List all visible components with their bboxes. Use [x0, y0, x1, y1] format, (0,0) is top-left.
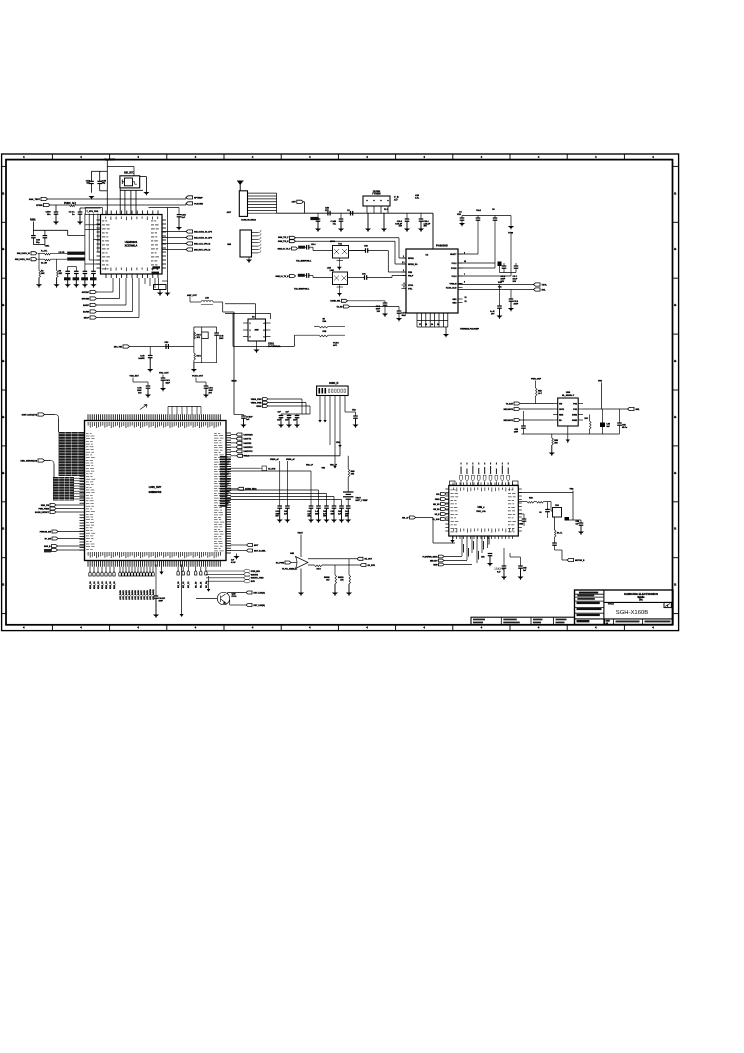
- capacitor C331 series: [165, 344, 167, 349]
- vcxo wires: [225, 303, 256, 305]
- port KBD_ROW bus: [38, 413, 45, 416]
- opamp ground: [300, 569, 302, 593]
- svg-text:AMP_OUT: AMP_OUT: [187, 294, 198, 297]
- afc resistor pair: [319, 326, 328, 328]
- U100 top pins: [105, 211, 107, 215]
- ground G9: [340, 221, 342, 228]
- TX chain A bold net label: [298, 246, 305, 249]
- ground G0 crystal: [145, 190, 147, 192]
- vbb drop right: [572, 493, 574, 521]
- svg-text:SGH-X160B: SGH-X160B: [616, 610, 648, 616]
- D400 top pin comb: [87, 414, 89, 420]
- svg-text:U6B_s: U6B_s: [478, 507, 486, 509]
- resistor R305 vertical: [57, 271, 59, 278]
- bottom rail network: [522, 433, 620, 435]
- resistor R331: [194, 353, 196, 360]
- svg-text:BKLIGHT1: BKLIGHT1: [504, 409, 513, 411]
- svg-text:OUT1: OUT1: [559, 409, 564, 411]
- ground G16: [499, 308, 501, 315]
- TX chain B coupling cap: [306, 273, 308, 278]
- svg-text:8: 8: [464, 282, 465, 284]
- ground G22: [193, 363, 195, 369]
- TX A out cap: [365, 248, 367, 253]
- ground G11: [420, 221, 422, 228]
- title left column labels: [579, 592, 598, 594]
- port XPWR: [44, 203, 51, 206]
- svg-text:BAND_SEL: BAND_SEL: [330, 300, 341, 303]
- round ports x4: [206, 570, 245, 572]
- svg-text:LCD_DAT3: LCD_DAT3: [128, 590, 131, 600]
- svg-text:1V6: 1V6: [323, 516, 326, 518]
- svg-text:RFTEMP: RFTEMP: [194, 197, 203, 199]
- svg-text:VREG_PWR: VREG_PWR: [251, 399, 262, 401]
- svg-text:22_0R: 22_0R: [41, 263, 47, 265]
- svg-text:TXVL: TXVL: [542, 284, 548, 286]
- svg-text:KBD_C0: KBD_C0: [90, 581, 92, 589]
- ports bottom pair: [52, 545, 58, 548]
- svg-text:TX2-dB/BFGM-L: TX2-dB/BFGM-L: [294, 289, 310, 291]
- svg-text:DISP_DATA(7:0): DISP_DATA(7:0): [22, 413, 38, 416]
- svg-text:4R-7u: 4R-7u: [622, 426, 627, 429]
- wire RF to PAM: [432, 213, 434, 249]
- svg-text:ANT: ANT: [291, 201, 296, 204]
- svg-text:UARTTX: UARTTX: [244, 438, 252, 441]
- crystal right loop: [140, 176, 147, 178]
- U500 pins: [553, 403, 558, 405]
- svg-text:GSM_TXI_N: GSM_TXI_N: [278, 241, 289, 243]
- svg-text:PBLF: PBLF: [408, 275, 414, 277]
- capacitor C301: [31, 235, 36, 237]
- mic bias network: [193, 327, 195, 347]
- transistor Q1 matching block: [333, 246, 349, 259]
- svg-text:PWRON_SW: PWRON_SW: [40, 531, 51, 533]
- port SIM_IO: [31, 252, 37, 255]
- svg-text:VDD_EXT: VDD_EXT: [130, 376, 140, 378]
- RF filter FL1: [363, 196, 390, 206]
- bus verticals to U100 left: [84, 214, 86, 267]
- svg-text:R301: R301: [30, 220, 36, 222]
- decoupling cap row x8: [277, 505, 282, 507]
- svg-text:BATT_/ TEMP: BATT_/ TEMP: [356, 499, 369, 502]
- svg-text:PG1: PG1: [573, 403, 577, 405]
- svg-text:PG2: PG2: [573, 409, 577, 411]
- net label block upper (dense): [59, 432, 84, 476]
- port MOTOR: [561, 550, 563, 560]
- svg-text:5: 5: [264, 330, 265, 332]
- svg-text:MOTOR_B: MOTOR_B: [575, 560, 585, 562]
- svg-text:ANT: ANT: [227, 211, 232, 214]
- svg-text:SIM_DATA_IO_2P8: SIM_DATA_IO_2P8: [194, 236, 213, 239]
- svg-text:EARN: EARN: [83, 311, 89, 314]
- svg-text:TX_EN: TX_EN: [336, 306, 343, 308]
- resistor R330: [194, 332, 196, 339]
- svg-text:SLIDE_DETECT: SLIDE_DETECT: [35, 512, 50, 514]
- connector contact fingers: [248, 192, 277, 194]
- ground G24: [162, 380, 164, 388]
- svg-text:R4 B: R4 B: [317, 568, 322, 571]
- svg-text:TITLE: TITLE: [608, 604, 614, 606]
- port LED B: [230, 604, 246, 606]
- op-amp U500 level shifter: [558, 398, 579, 426]
- bottom port group A: [89, 567, 91, 572]
- ground G20 vcxo: [256, 341, 258, 350]
- svg-text:T_STB_PDB: T_STB_PDB: [87, 211, 99, 213]
- PAM left pins: [402, 257, 407, 259]
- port BKLIGHT1: [514, 408, 520, 411]
- svg-text:UARTDSR: UARTDSR: [244, 433, 254, 436]
- svg-text:GSM_TXI_P: GSM_TXI_P: [278, 237, 289, 239]
- svg-text:TX1-dB/BFGM-L: TX1-dB/BFGM-L: [296, 261, 312, 263]
- b2b bottom drops: [319, 396, 321, 421]
- svg-text:EARP: EARP: [83, 304, 89, 307]
- svg-text:2u2/6R: 2u2/6R: [138, 358, 145, 360]
- svg-text:18: 18: [425, 324, 427, 326]
- U100 right ports: [162, 231, 186, 233]
- b2b left ports: [263, 398, 269, 401]
- U100 bottom pins: [105, 274, 107, 278]
- capacitor C208 pair: [502, 265, 507, 267]
- SPK box: [154, 285, 167, 290]
- corner stub: [450, 481, 456, 485]
- port RFC right 2: [186, 202, 193, 205]
- port PWRON: [52, 530, 58, 533]
- PAM RX output wires: [458, 284, 534, 286]
- capacitor C201 series: [350, 211, 352, 216]
- svg-text:LCD_DAT8: LCD_DAT8: [143, 590, 146, 600]
- svg-text:U4B: U4B: [290, 552, 295, 555]
- ground G6: [178, 217, 180, 227]
- ports right of IC x5: [231, 434, 236, 436]
- svg-text:FY5636: FY5636: [372, 194, 381, 196]
- svg-text:SIM_DATA_IO: SIM_DATA_IO: [17, 252, 31, 255]
- capacitor C207: [493, 217, 498, 219]
- svg-text:C3-7R: C3-7R: [59, 252, 65, 254]
- U300 pins: [243, 322, 248, 324]
- ground G1: [88, 196, 94, 199]
- SIM bank bold labels: [64, 277, 71, 280]
- svg-text:4.5L: 4.5L: [415, 197, 420, 200]
- U100 right pins: [162, 219, 166, 221]
- svg-text:GSM_IO_TX_P: GSM_IO_TX_P: [277, 248, 291, 250]
- port BUZ far left: [410, 516, 416, 519]
- bottom port group C: [177, 567, 179, 571]
- title bottom cells: [604, 619, 606, 625]
- svg-text:KBD_C5: KBD_C5: [110, 581, 112, 589]
- U600 left ports: [447, 493, 449, 495]
- opamp outputs: [308, 558, 357, 560]
- svg-text:R6_7L: R6_7L: [557, 533, 563, 535]
- svg-text:C6: C6: [539, 512, 541, 514]
- svg-text:VBAT: VBAT: [298, 532, 304, 535]
- svg-text:L3B: L3B: [205, 298, 209, 300]
- svg-text:1.5M: 1.5M: [330, 270, 335, 272]
- ground G21: [149, 358, 151, 369]
- svg-text:2K2: 2K2: [197, 337, 200, 339]
- ground G32: [551, 445, 553, 453]
- svg-text:VREG_uP: VREG_uP: [286, 459, 296, 461]
- capacitor C221: [397, 310, 402, 312]
- D400 bottom pin comb: [87, 561, 89, 567]
- capacitor C220: [383, 302, 388, 304]
- sheet outer border: [2, 154, 679, 631]
- svg-text:MELODY: MELODY: [430, 560, 438, 562]
- svg-text:12: 12: [465, 297, 467, 299]
- TX chain A coupling cap: [306, 245, 308, 250]
- U600 top ports column: [460, 482, 462, 486]
- connector CON400 B2B: [317, 386, 349, 396]
- ground G6b: [164, 293, 170, 296]
- svg-text:R_A7L: R_A7L: [41, 249, 48, 252]
- svg-text:4K7: 4K7: [326, 578, 329, 581]
- U600 bottom wires: [461, 536, 463, 556]
- sheet inner border: [6, 160, 673, 625]
- port TX_BAT: [514, 402, 520, 405]
- wires U100 left to bus: [85, 224, 101, 226]
- svg-text:KBD_C6: KBD_C6: [114, 581, 116, 589]
- TX chain B: port: [290, 275, 296, 278]
- port TGLA: [231, 455, 237, 457]
- resistor R450 series: [308, 564, 315, 566]
- resistor R302: [45, 253, 51, 255]
- svg-text:SW_B1: SW_B1: [433, 509, 439, 511]
- ground G3: [79, 214, 81, 222]
- capacitor C206: [476, 217, 481, 219]
- svg-text:SIM_CLK_1P8_M: SIM_CLK_1P8_M: [194, 243, 211, 245]
- svg-text:A3: A3: [606, 622, 608, 625]
- resistor R100 series: [70, 205, 76, 207]
- svg-text:RFIN1: RFIN1: [408, 258, 415, 260]
- PAM bottom pin comb: [416, 313, 418, 321]
- svg-text:GND: GND: [559, 414, 564, 416]
- svg-text:HL_SLB: HL_SLB: [432, 519, 440, 521]
- bottom port group B: [119, 567, 121, 572]
- svg-text:XCERMLA: XCERMLA: [125, 244, 138, 248]
- svg-text:RXL: RXL: [542, 289, 547, 291]
- resistor R502: [589, 421, 591, 423]
- net label blob SIM_CLK: [67, 257, 84, 260]
- port ANT_SEL1: [342, 299, 348, 302]
- wire VBAT top: [106, 161, 108, 215]
- svg-text:VREG_PWB: VREG_PWB: [251, 402, 262, 404]
- U100 bottom-left ports w/ nested wires: [90, 290, 97, 293]
- capacitor C302: [43, 235, 48, 237]
- capacitor C601 15K label: [502, 565, 507, 567]
- wire cap top rail: [92, 170, 108, 172]
- svg-text:T30L: T30L: [45, 246, 51, 248]
- capacitor C203 shunt: [405, 218, 410, 220]
- ground G2: [55, 214, 57, 222]
- svg-text:FILTER: FILTER: [373, 191, 381, 193]
- capacitor C202 shunt: [339, 218, 344, 220]
- PAM right pins: [458, 253, 463, 255]
- D400 left pin comb: [80, 432, 85, 434]
- port BKLIGHT2: [514, 419, 520, 422]
- ground G28: [155, 598, 157, 614]
- battery BT400: [343, 491, 354, 493]
- svg-text:32K_RTC: 32K_RTC: [124, 172, 134, 174]
- wire mic rail vertical: [233, 312, 235, 415]
- svg-text:CON4_IF: CON4_IF: [329, 382, 339, 385]
- port ANT_SEL2: [344, 305, 350, 308]
- crystal wires to U100: [119, 188, 121, 215]
- long VBB wire: [243, 455, 341, 457]
- transistor Q500 black blob: [600, 423, 605, 428]
- crystal X100 32kHz: [120, 176, 140, 188]
- svg-text:BZ_PWM: BZ_PWM: [276, 562, 285, 564]
- transistor Q2 matching block: [333, 272, 348, 285]
- port LCD bus 2: [38, 459, 45, 462]
- ground G17 sim: [248, 257, 250, 260]
- svg-text:DTC1: DTC1: [232, 596, 237, 598]
- svg-text:UARTCTS: UARTCTS: [244, 450, 254, 453]
- ground G33 qfn: [452, 536, 454, 540]
- wire right rail: [149, 207, 180, 209]
- svg-text:C2 4n: C2 4n: [69, 211, 75, 214]
- title block: [575, 590, 674, 625]
- svg-text:MICP: MICP: [84, 318, 90, 320]
- svg-text:T3A: T3A: [338, 243, 342, 246]
- wire to vcxo: [222, 302, 224, 312]
- filter grounds: [367, 213, 369, 228]
- wire w arrow 2: [208, 576, 210, 589]
- svg-text:NL_SRS5L-T: NL_SRS5L-T: [562, 395, 575, 397]
- resistor R440 on vbb: [348, 469, 350, 477]
- svg-text:KEY_LED(B): KEY_LED(B): [254, 605, 266, 607]
- rev box: [664, 602, 671, 607]
- bold net labels right column: [220, 456, 228, 458]
- capacitor C332: [214, 332, 219, 334]
- U100 left pins: [97, 219, 101, 221]
- wires from U100 top going up: [133, 167, 135, 176]
- svg-text:EAR_B: EAR_B: [44, 545, 51, 548]
- svg-text:6: 6: [264, 337, 265, 339]
- port ANT: [297, 200, 304, 203]
- capacitor C604: [522, 518, 527, 520]
- svg-text:C3C: C3C: [362, 274, 366, 276]
- svg-text:KBD_C3: KBD_C3: [102, 581, 104, 589]
- wires block to IC: [83, 432, 86, 434]
- capacitor C440 TAB: [353, 415, 358, 417]
- capacitor C600: [488, 553, 493, 555]
- svg-text:PWR_PRES: PWR_PRES: [38, 508, 49, 510]
- svg-text:SPKRP: SPKRP: [82, 292, 90, 294]
- svg-text:LCD_DAT6: LCD_DAT6: [137, 590, 140, 600]
- ground G35: [520, 568, 522, 576]
- svg-text:SIM_DATA_CLK: SIM_DATA_CLK: [15, 258, 31, 261]
- bracket over IC top pins: [168, 406, 201, 408]
- revision strip boxes: [471, 617, 575, 624]
- svg-text:VB3_uF: VB3_uF: [330, 465, 338, 467]
- U100 bottom wires down: [144, 278, 146, 284]
- svg-text:TAB: TAB: [352, 409, 356, 412]
- ground G26: [243, 418, 245, 424]
- U600 pin combs: [445, 488, 449, 490]
- TX chain A: port: [292, 247, 298, 250]
- ferrite FB200 black: [498, 262, 502, 267]
- audio port w label: [231, 488, 238, 490]
- svg-text:LCD_DAT7: LCD_DAT7: [140, 590, 143, 600]
- svg-text:L4-7: L4-7: [538, 392, 542, 395]
- svg-text:FB6: FB6: [555, 505, 558, 507]
- capacitor C200 shunt: [316, 218, 321, 220]
- svg-text:MOT_B_MBL: MOT_B_MBL: [254, 550, 267, 552]
- resistor R452 shunt: [348, 559, 350, 575]
- U500 gnd stub: [567, 426, 569, 440]
- svg-text:KEY_LED(A): KEY_LED(A): [254, 591, 266, 594]
- svg-text:BZ_OUT: BZ_OUT: [365, 559, 373, 561]
- svg-text:VB3: VB3: [322, 468, 326, 470]
- svg-text:26M: 26M: [254, 330, 258, 332]
- svg-text:Div.: Div.: [639, 600, 643, 602]
- svg-text:W_CONT: W_CONT: [105, 160, 116, 162]
- svg-text:ANA_TEST: ANA_TEST: [29, 198, 41, 201]
- svg-text:LCD_DAT1: LCD_DAT1: [122, 590, 125, 600]
- wire from sim area down: [224, 304, 226, 314]
- ground G27: [355, 418, 357, 424]
- svg-text:SIM: SIM: [227, 244, 231, 246]
- svg-text:LCD_DAT10: LCD_DAT10: [149, 589, 152, 600]
- svg-text:VBATT: VBATT: [450, 253, 457, 256]
- box U601: [553, 508, 562, 518]
- svg-text:REW: REW: [433, 564, 437, 566]
- svg-text:I2C_D2: I2C_D2: [206, 582, 208, 588]
- wire mic: [130, 346, 194, 348]
- svg-text:TX_BAT: TX_BAT: [506, 402, 514, 405]
- svg-text:KBD_C4: KBD_C4: [105, 581, 108, 589]
- svg-text:BKLIGHT2: BKLIGHT2: [504, 420, 513, 422]
- long wire w arrow: [181, 565, 183, 615]
- svg-text:L300_SVP: L300_SVP: [149, 485, 162, 489]
- capacitor C209: [509, 298, 514, 300]
- wires block2 to IC: [74, 477, 85, 479]
- ports right-bottom pair: [231, 544, 247, 546]
- ground G30: [334, 584, 336, 593]
- port audio in: [285, 561, 291, 564]
- svg-text:0.47: 0.47: [497, 571, 500, 574]
- resistor R501 to gnd: [551, 434, 553, 438]
- svg-text:LCD_DAT5: LCD_DAT5: [134, 590, 137, 600]
- ground G4: [38, 278, 40, 285]
- transistor bias grounds: [338, 258, 340, 267]
- svg-text:SPI_C0: SPI_C0: [178, 582, 180, 588]
- svg-text:4: 4: [404, 282, 405, 285]
- svg-text:PURX_A(-): PURX_A(-): [64, 202, 76, 205]
- wire vbb to 456 long: [339, 455, 341, 457]
- PAM right wiring: [458, 253, 478, 255]
- svg-text:BZ_RTN: BZ_RTN: [368, 565, 376, 567]
- svg-text:13: 13: [465, 301, 467, 303]
- op-amp U450 buffer: [296, 557, 309, 569]
- port SIM_CLK: [31, 258, 37, 261]
- svg-text:VBUS: VBUS: [256, 406, 262, 408]
- capacitor C1 series: [327, 211, 329, 216]
- svg-text:CON1-S6-SMA2: CON1-S6-SMA2: [241, 218, 257, 221]
- svg-text:20: 20: [437, 324, 439, 326]
- port RFC right 1: [186, 196, 193, 199]
- 3 ports stacked bottom-left: [439, 555, 445, 558]
- capacitor C103 on xpwr: [54, 211, 59, 213]
- svg-text:VPBLM: VPBLM: [450, 283, 457, 285]
- svg-text:PWR_ONF: PWR_ONF: [531, 379, 542, 381]
- svg-text:SIM_RST_1P8_M: SIM_RST_1P8_M: [194, 249, 210, 251]
- svg-text:I2C_D1: I2C_D1: [201, 582, 203, 588]
- port RX1: [534, 283, 541, 286]
- svg-text:XPWR: XPWR: [36, 205, 43, 207]
- resistor R304 vertical: [39, 271, 41, 278]
- clock arrow: [140, 405, 147, 410]
- b2b decoupling caps: [279, 415, 284, 417]
- svg-text:UEM3201: UEM3201: [125, 240, 138, 244]
